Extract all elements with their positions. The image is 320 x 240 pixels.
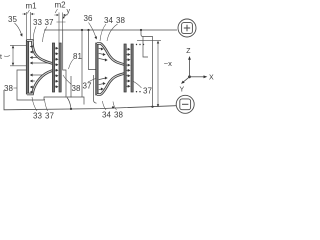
svg-text:38: 38 bbox=[116, 16, 125, 25]
wire x93.5 bbox=[94, 75, 97, 103]
junction dots on top bus bbox=[81, 29, 83, 31]
dimension t arrow line bbox=[12, 47, 14, 64]
dimension t ticks bbox=[10, 45, 26, 66]
svg-text:35: 35 bbox=[8, 15, 17, 24]
svg-text:37: 37 bbox=[45, 112, 54, 121]
electrode 33 top horn band bbox=[27, 41, 54, 64]
svg-text:36: 36 bbox=[84, 14, 93, 23]
minus terminal symbol bbox=[176, 95, 194, 113]
m1 arrows bbox=[22, 13, 24, 15]
electrode 33 bottom horn band bbox=[27, 70, 54, 94]
field arrows at left plate bbox=[30, 45, 48, 94]
m1 extension lines bbox=[26, 12, 30, 40]
electrode pair 37 left plate bbox=[52, 43, 54, 92]
svg-text:37: 37 bbox=[143, 87, 152, 96]
support hairpin B bbox=[44, 97, 84, 109]
wire right of pair1 down bbox=[63, 30, 66, 98]
arrows in pair2 gap bbox=[127, 48, 131, 88]
electrode 38 bottom horn band bbox=[97, 73, 125, 94]
m2 leader bbox=[55, 9, 57, 13]
svg-text:y: y bbox=[67, 8, 71, 15]
svg-text:X: X bbox=[209, 74, 214, 81]
wire x88.5 to plate bbox=[89, 30, 96, 70]
electrode 34 plate bbox=[96, 43, 98, 95]
m1 leader bbox=[28, 10, 30, 14]
axis X bbox=[190, 76, 205, 78]
svg-text:m1: m1 bbox=[26, 2, 38, 11]
continuation dots top bbox=[136, 44, 137, 45]
wire x71 bbox=[70, 76, 72, 98]
svg-text:m2: m2 bbox=[55, 1, 67, 10]
svg-text:~x: ~x bbox=[164, 59, 172, 68]
field arrows unit2 bottom bbox=[99, 77, 108, 91]
svg-text:37: 37 bbox=[45, 18, 54, 27]
continuation dots bottom bbox=[136, 91, 137, 92]
electrode pair 38 right plate bbox=[59, 43, 61, 92]
electrode pair right, left plate bbox=[124, 44, 126, 92]
axis Z bbox=[189, 60, 191, 77]
svg-text:33: 33 bbox=[33, 18, 42, 27]
svg-text:37: 37 bbox=[83, 82, 92, 91]
m2 extension lines bbox=[57, 13, 66, 44]
electrode 38 top horn band bbox=[97, 44, 125, 65]
svg-text:33: 33 bbox=[33, 112, 42, 121]
svg-text:81: 81 bbox=[73, 52, 82, 61]
svg-text:Y: Y bbox=[180, 86, 185, 93]
svg-text:38: 38 bbox=[4, 84, 13, 93]
support hairpin A bbox=[17, 70, 44, 100]
dimension x ticks bbox=[137, 40, 161, 42]
dimension x line bbox=[157, 43, 159, 106]
field arrows unit2 top bbox=[99, 48, 108, 62]
svg-text:34: 34 bbox=[102, 111, 111, 120]
wire top bus to plus terminal bbox=[44, 29, 177, 31]
axes origin bbox=[188, 75, 191, 78]
junction dots bottom bus bbox=[70, 108, 72, 110]
arrows in pair1 gap bbox=[55, 47, 59, 88]
svg-text:t: t bbox=[0, 54, 2, 61]
electrode pair right, right plate bbox=[131, 44, 133, 92]
wire x82 bbox=[81, 30, 83, 97]
svg-text:34: 34 bbox=[104, 16, 113, 25]
electrode 35 plate left bbox=[26, 40, 28, 94]
wire bottom bus to minus terminal bbox=[4, 90, 176, 110]
svg-text:38: 38 bbox=[72, 84, 81, 93]
m2 arrows bbox=[54, 14, 57, 16]
svg-text:38: 38 bbox=[114, 111, 123, 120]
wire right support frame bbox=[141, 30, 153, 107]
plus terminal symbol bbox=[178, 19, 196, 37]
axis Y bbox=[184, 77, 190, 82]
svg-text:Z: Z bbox=[186, 48, 191, 55]
